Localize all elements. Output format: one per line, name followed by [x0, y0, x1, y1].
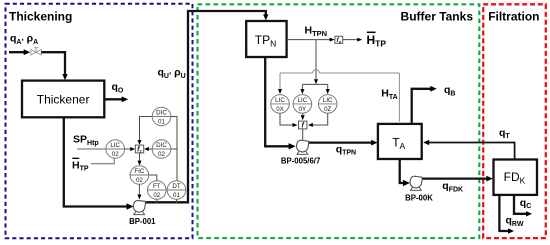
- function block f1: [135, 145, 143, 154]
- pump BP-00K: [410, 176, 422, 190]
- svg-text:02: 02: [153, 192, 160, 199]
- signal DIC 02 to f1: [146, 148, 152, 150]
- svg-text:FT: FT: [153, 183, 161, 190]
- signal LIC 0Y to f: [302, 113, 304, 118]
- svg-text:FIC: FIC: [134, 168, 144, 175]
- instrument DT 01: [167, 181, 186, 200]
- svg-text:Thickener: Thickener: [37, 93, 90, 107]
- signal FT/DT stubs to pipe: [156, 199, 158, 203]
- pump BP-005/6/7: [297, 140, 309, 154]
- svg-text:LIC: LIC: [275, 97, 285, 104]
- svg-text:BP-00K: BP-00K: [405, 194, 433, 203]
- signal H_TA from TA to LIC 0X with hop: [398, 73, 400, 122]
- function block fs: [335, 36, 343, 44]
- svg-text:01: 01: [173, 192, 180, 199]
- signal FT 02 to FIC 02: [149, 175, 157, 181]
- wire qC out of FDK: [514, 195, 529, 214]
- instrument FT 02: [148, 181, 167, 200]
- svg-text:0Y: 0Y: [299, 106, 307, 113]
- wire qFDK from BP-00K to FDK: [417, 177, 490, 179]
- wire valve to Thickener inlet: [41, 52, 65, 77]
- svg-text:BP-001: BP-001: [129, 217, 156, 226]
- svg-text:02: 02: [112, 151, 119, 158]
- pump BP-001: [133, 200, 145, 214]
- section border: Thickening (blue dashed): [6, 4, 193, 239]
- signal DIC 01 to f1: [140, 117, 153, 143]
- svg-text:0X: 0X: [276, 106, 284, 113]
- svg-text:0Z: 0Z: [324, 106, 331, 113]
- wire qT from FDK to TA: [427, 143, 515, 160]
- signal DT 01 to DIC 01 and DIC 02: [171, 117, 177, 181]
- section border: Buffer Tanks (green dashed): [198, 4, 480, 238]
- svg-text:BP-005/6/7: BP-005/6/7: [281, 157, 320, 166]
- wire TPN underflow to pump BP-005/6/7: [265, 57, 290, 147]
- wire qTPN from pump to TA: [303, 141, 375, 143]
- vessel Thickener: [22, 81, 104, 118]
- svg-text:DT: DT: [172, 183, 180, 190]
- svg-text:DIC: DIC: [156, 109, 167, 116]
- section border: Filtration (red dashed): [483, 4, 546, 238]
- svg-text:02: 02: [136, 177, 143, 184]
- wire overflow qO: [104, 98, 125, 100]
- wire qRW out of FDK: [499, 195, 511, 231]
- signal LIC 02 to f1: [125, 148, 134, 150]
- wire TA underflow to pump BP-00K: [400, 159, 405, 183]
- svg-text:Thickening: Thickening: [9, 10, 72, 24]
- signal LIC 0X to f: [280, 113, 295, 125]
- svg-text:LIC: LIC: [298, 97, 308, 104]
- signal H_TPN from TPN to fs: [287, 39, 333, 41]
- svg-text:DIC: DIC: [156, 142, 167, 149]
- wire underflow to pump BP-001: [64, 117, 129, 206]
- signal H_TPN down to LIC 0Y / 0Z: [315, 40, 317, 82]
- wire recycle qU from BP-001 to TPN: [140, 11, 266, 202]
- vessel TPN: [246, 21, 286, 57]
- vessel TA: [378, 124, 422, 159]
- instrument LIC 02: [106, 140, 125, 159]
- signal f1 to FIC 02: [139, 153, 141, 164]
- signal Hbar_TP to LIC 02: [91, 159, 114, 164]
- instrument FIC 02: [130, 166, 149, 185]
- wire feed into valve: [9, 51, 27, 53]
- signal LIC 0Z to f: [310, 113, 328, 125]
- wire qB from TA top: [412, 89, 434, 124]
- svg-text:LIC: LIC: [110, 142, 120, 149]
- svg-text:LIC: LIC: [323, 97, 333, 104]
- vessel FDK: [494, 160, 538, 195]
- valve V feed: [31, 48, 41, 55]
- signal f to pump BP-005/6/7: [302, 129, 304, 140]
- signal SP to LIC 02: [77, 148, 106, 150]
- instrument DIC 02: [152, 140, 171, 159]
- svg-text:Filtration: Filtration: [488, 10, 539, 24]
- instrument LIC 0X: [271, 95, 290, 114]
- svg-text:Buffer Tanks: Buffer Tanks: [401, 10, 474, 24]
- svg-text:02: 02: [158, 151, 165, 158]
- function block f: [299, 121, 307, 129]
- svg-text:01: 01: [158, 119, 165, 126]
- signal fs to Hbar_TP: [343, 39, 360, 41]
- instrument LIC 0Z: [318, 95, 337, 114]
- instrument LIC 0Y: [293, 95, 312, 114]
- instrument DIC 01: [152, 107, 171, 126]
- signal FIC 02 to pump BP-001: [138, 184, 140, 197]
